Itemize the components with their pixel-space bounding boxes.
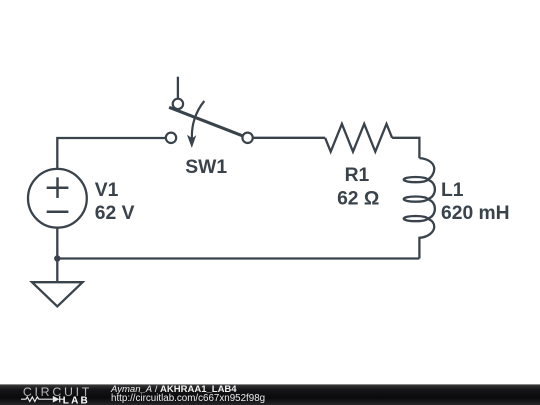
CircuitLab logo waveform [21, 396, 65, 402]
voltage source V1 [28, 169, 87, 228]
svg-text:62 V: 62 V [95, 203, 135, 224]
wire switch to resistor [248, 137, 326, 139]
switch SW1 top stub [177, 77, 179, 99]
switch SW1 right terminal [242, 133, 252, 143]
svg-text:R1: R1 [345, 165, 370, 186]
switch SW1 top terminal [173, 99, 183, 109]
switch SW1 action arrow arc [192, 101, 204, 139]
wire bottom rail [57, 227, 419, 259]
inductor L1 [404, 158, 435, 258]
wire top-left rail [57, 138, 170, 170]
ground [32, 282, 83, 306]
node junction dot [54, 255, 60, 261]
V1 plus sign [47, 177, 69, 198]
wire V1 bottom / ground stub [56, 259, 58, 283]
footer bar [0, 384, 540, 405]
svg-text:SW1: SW1 [185, 157, 227, 178]
V1 minus sign [47, 211, 69, 214]
CircuitLab logo diode [53, 396, 60, 403]
switch SW1 left terminal [166, 133, 176, 143]
svg-text:620 mH: 620 mH [441, 203, 510, 224]
wire resistor to inductor top [392, 138, 419, 158]
resistor R1 [325, 124, 392, 152]
svg-text:L1: L1 [441, 180, 464, 201]
svg-text:62 Ω: 62 Ω [337, 188, 379, 209]
switch SW1 arrowhead [187, 135, 196, 148]
switch SW1 blade [169, 107, 243, 136]
svg-text:http://circuitlab.com/c667xn95: http://circuitlab.com/c667xn952f98g [111, 393, 265, 404]
svg-text:LAB: LAB [63, 396, 90, 405]
svg-text:V1: V1 [95, 180, 119, 201]
